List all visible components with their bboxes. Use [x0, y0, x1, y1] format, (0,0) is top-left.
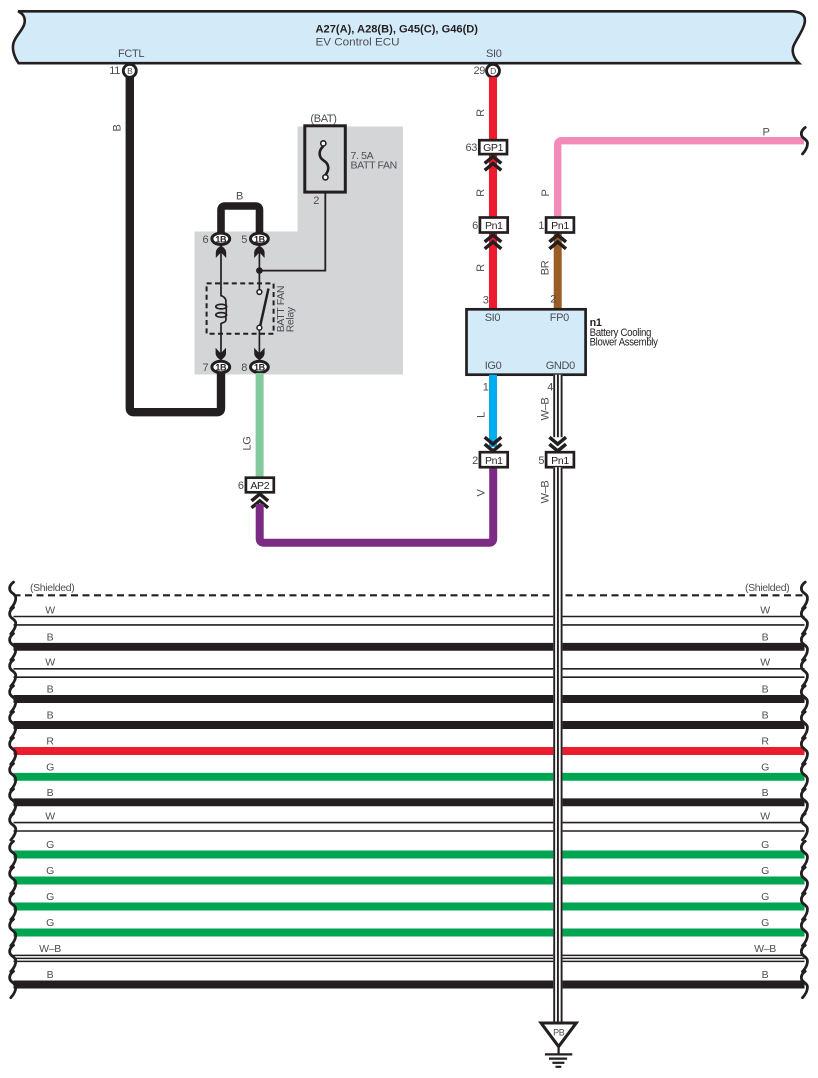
svg-text:G: G: [46, 891, 54, 903]
svg-text:W: W: [760, 604, 770, 616]
svg-text:1B: 1B: [254, 234, 266, 244]
svg-text:Pn1: Pn1: [485, 455, 503, 467]
svg-text:5: 5: [538, 455, 544, 467]
svg-text:SI0: SI0: [486, 48, 502, 60]
svg-text:W: W: [45, 604, 55, 616]
svg-text:G: G: [761, 762, 769, 774]
svg-text:G: G: [761, 891, 769, 903]
svg-text:B: B: [762, 684, 769, 696]
svg-text:Pn1: Pn1: [485, 220, 503, 232]
svg-text:Relay: Relay: [285, 306, 297, 332]
svg-text:IG0: IG0: [485, 360, 502, 372]
svg-text:B: B: [47, 969, 54, 981]
svg-text:11: 11: [109, 65, 120, 77]
svg-text:2: 2: [472, 455, 478, 467]
svg-text:3: 3: [483, 295, 489, 307]
svg-text:G: G: [46, 865, 54, 877]
svg-text:P: P: [763, 127, 770, 139]
svg-text:PB: PB: [553, 1027, 565, 1037]
svg-text:W: W: [45, 657, 55, 669]
svg-text:R: R: [475, 264, 487, 272]
svg-text:B: B: [762, 632, 769, 644]
svg-text:D: D: [490, 66, 496, 76]
svg-text:V: V: [476, 489, 488, 497]
svg-text:AP2: AP2: [250, 480, 269, 492]
svg-text:G: G: [761, 917, 769, 929]
svg-text:B: B: [236, 191, 243, 203]
svg-text:Pn1: Pn1: [551, 455, 569, 467]
svg-text:B: B: [47, 632, 54, 644]
svg-text:8: 8: [241, 362, 247, 374]
svg-text:6: 6: [203, 234, 209, 246]
svg-text:B: B: [112, 125, 124, 132]
svg-text:L: L: [476, 412, 488, 418]
svg-text:BR: BR: [540, 260, 552, 275]
svg-text:R: R: [475, 109, 487, 117]
svg-text:G: G: [46, 762, 54, 774]
svg-text:W–B: W–B: [754, 943, 776, 955]
svg-text:W: W: [760, 810, 770, 822]
svg-text:(BAT): (BAT): [310, 113, 336, 125]
svg-text:W: W: [45, 810, 55, 822]
svg-text:Pn1: Pn1: [551, 220, 569, 232]
svg-text:7: 7: [203, 362, 209, 374]
svg-text:1B: 1B: [215, 234, 227, 244]
svg-text:4: 4: [547, 382, 553, 394]
svg-text:EV Control ECU: EV Control ECU: [316, 37, 400, 49]
svg-text:W: W: [760, 657, 770, 669]
svg-text:W–B: W–B: [540, 481, 552, 504]
svg-text:2: 2: [550, 294, 556, 306]
svg-text:G: G: [761, 865, 769, 877]
svg-text:B: B: [127, 66, 133, 76]
svg-text:B: B: [47, 710, 54, 722]
svg-text:W–B: W–B: [39, 943, 61, 955]
svg-text:B: B: [762, 969, 769, 981]
svg-text:R: R: [761, 736, 769, 748]
svg-text:GP1: GP1: [483, 142, 503, 154]
svg-text:B: B: [47, 787, 54, 799]
svg-text:G: G: [761, 839, 769, 851]
svg-text:GND0: GND0: [546, 360, 575, 372]
svg-text:BATT FAN: BATT FAN: [351, 159, 397, 171]
svg-text:R: R: [46, 736, 54, 748]
svg-text:B: B: [47, 684, 54, 696]
svg-text:SI0: SI0: [485, 312, 501, 324]
svg-text:1: 1: [483, 382, 489, 394]
svg-text:6: 6: [472, 220, 478, 232]
svg-text:B: B: [762, 787, 769, 799]
svg-text:6: 6: [238, 480, 244, 492]
svg-text:R: R: [475, 189, 487, 197]
svg-text:W–B: W–B: [540, 398, 552, 421]
svg-text:LG: LG: [242, 437, 254, 451]
svg-text:FP0: FP0: [550, 312, 569, 324]
svg-text:(Shielded): (Shielded): [30, 582, 74, 594]
svg-text:1B: 1B: [254, 363, 266, 373]
svg-text:B: B: [762, 710, 769, 722]
svg-text:G: G: [46, 917, 54, 929]
svg-text:A27(A), A28(B), G45(C), G46(D): A27(A), A28(B), G45(C), G46(D): [316, 24, 479, 36]
svg-text:1: 1: [538, 220, 544, 232]
svg-text:(Shielded): (Shielded): [745, 582, 789, 594]
svg-text:29: 29: [473, 65, 485, 77]
svg-text:63: 63: [465, 142, 477, 154]
svg-text:2: 2: [313, 195, 319, 207]
svg-text:1B: 1B: [215, 363, 227, 373]
svg-text:FCTL: FCTL: [118, 48, 144, 60]
svg-text:P: P: [540, 190, 552, 197]
svg-text:Blower Assembly: Blower Assembly: [590, 336, 659, 348]
svg-text:5: 5: [241, 234, 247, 246]
svg-text:G: G: [46, 839, 54, 851]
